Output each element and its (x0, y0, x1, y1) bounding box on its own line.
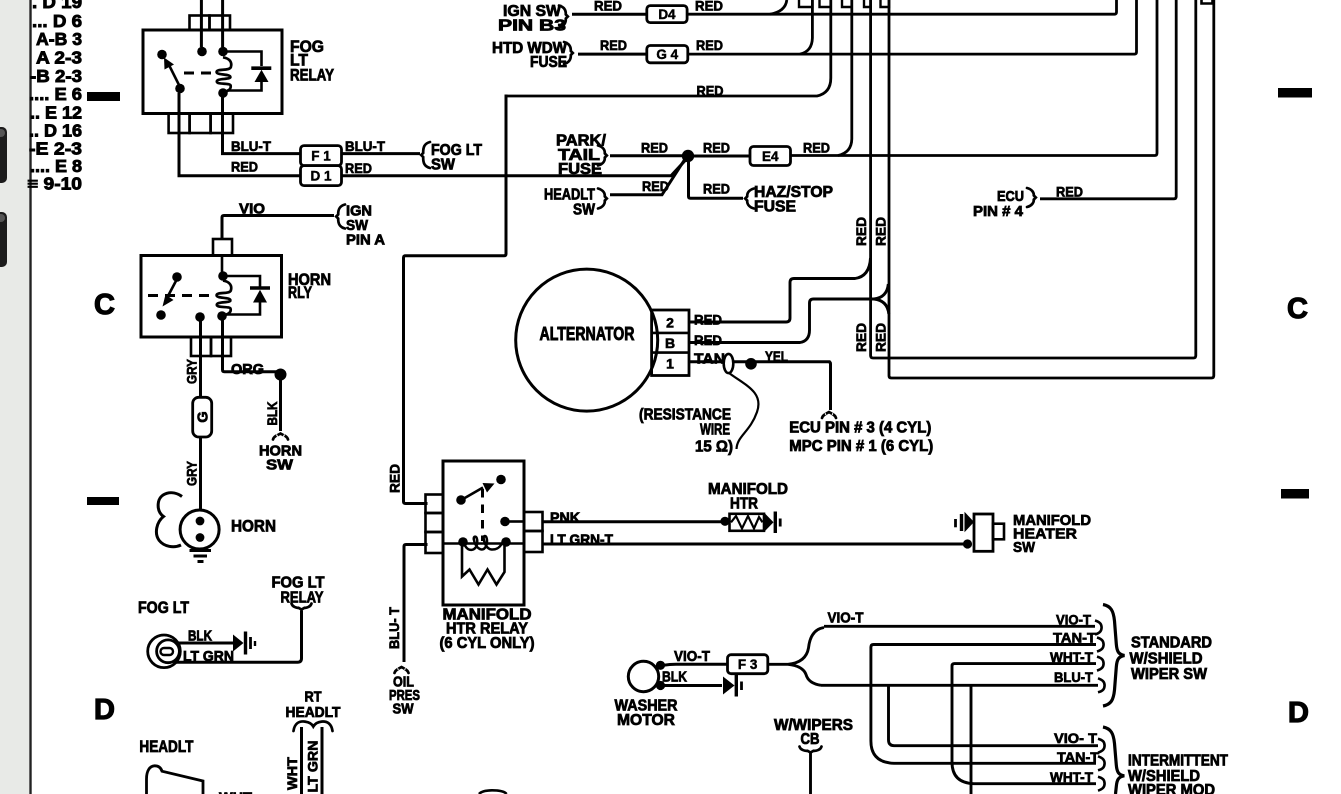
fog relay dashed actuator link (184, 72, 216, 75)
relay FOG LT RELAY box (143, 30, 282, 114)
grid index list (left margin) (27, 0, 82, 194)
sidebar scroll button 2 (0, 212, 7, 267)
label RED rotated (manifold feed) (387, 464, 403, 493)
horn rly bottom connector tabs (191, 337, 231, 356)
wire TAN/YEL alternator pin1 (689, 362, 831, 410)
label HEADLT (139, 738, 193, 756)
label RED (pin2) (694, 312, 722, 328)
wire branch up from D4 run (770, 0, 787, 14)
svg-text:RED: RED (694, 312, 722, 328)
connector end haz/stop fuse (745, 189, 754, 209)
label ECU PIN #4 (973, 188, 1024, 220)
label RED (headlt) (642, 178, 669, 194)
label FOG LT RELAY (callout) (272, 575, 325, 607)
junction dot yel (745, 358, 757, 370)
svg-text:YEL: YEL (765, 350, 788, 366)
svg-text:C: C (1287, 293, 1308, 325)
manifold htr ground (765, 512, 781, 534)
svg-text:TAN-T: TAN-T (1057, 749, 1099, 765)
svg-text:GRY: GRY (184, 358, 200, 384)
connector end oil pres sw (395, 667, 409, 673)
manifold relay right connector tabs (524, 512, 543, 552)
wire RED htd wdw to G4 (578, 53, 647, 56)
svg-text:BLK: BLK (264, 402, 280, 426)
label W/WIPERS CB (774, 717, 853, 748)
wire RED D4 to top right corner (687, 0, 1116, 14)
label BLU-T (right of F1) (345, 139, 386, 154)
svg-text:G 4: G 4 (656, 47, 678, 62)
svg-text:RED: RED (641, 140, 668, 156)
label TAN (694, 352, 725, 368)
label LT GRN-T (550, 532, 613, 549)
label ALTERNATOR (540, 324, 635, 344)
svg-text:D4: D4 (658, 7, 676, 22)
label FOG LT (lamp) (138, 599, 189, 617)
label HORN RLY (288, 271, 331, 302)
fog lt relay top connector tabs (190, 16, 231, 31)
svg-text:WHT: WHT (219, 790, 252, 794)
wire LT GRN fog lamp to relay (176, 611, 302, 663)
label WHT cut at bottom edge (219, 790, 252, 794)
top edge connector stub right pair (1202, 0, 1213, 4)
label RED (ign-d4) (594, 0, 622, 14)
wire TAN-T row (bracket shape) (871, 645, 1096, 764)
wire RED E4 to top right corner (791, 0, 1158, 156)
label GRY rotated (lower) (184, 460, 200, 486)
svg-text:WIPER SW: WIPER SW (1131, 666, 1207, 683)
svg-text:BLU-T: BLU-T (345, 139, 386, 154)
manifold relay resistor loop (462, 546, 505, 585)
svg-text:VIO-T: VIO-T (828, 611, 864, 627)
label RED (pinB) (694, 332, 722, 348)
svg-text:TAN-T: TAN-T (1053, 630, 1096, 646)
svg-text:RED: RED (803, 140, 830, 156)
svg-text:ALTERNATOR: ALTERNATOR (540, 324, 635, 344)
label HORN (231, 518, 276, 536)
connector D1 (301, 166, 342, 186)
svg-text:SW: SW (431, 157, 455, 174)
svg-text:RED: RED (697, 83, 724, 99)
svg-text:W/SHIELD: W/SHIELD (1130, 651, 1203, 668)
svg-text:RED: RED (231, 159, 258, 175)
manifold relay coil wire (443, 542, 524, 545)
label BLK (fog) (188, 628, 212, 645)
label IGN SW PIN A (346, 203, 385, 249)
label RED (park-junction) (641, 140, 668, 156)
label LT GRN rotated (305, 741, 321, 793)
wire RED ecu pin4 to top right (1040, 0, 1176, 199)
wire fog relay feed right (from top edge) (221, 0, 224, 47)
label INTERMITTENT W/SHIELD WIPER MOD (1128, 753, 1228, 794)
label VIO-T (row1 right) (1056, 612, 1091, 628)
horn relay diode (bar + triangle) (250, 288, 270, 303)
svg-text:G: G (196, 411, 212, 422)
svg-text:FUSE: FUSE (530, 54, 567, 71)
fog relay coil bottom dot (218, 88, 228, 98)
label MANIFOLD HEATER SW (1013, 513, 1091, 556)
svg-text:SW: SW (573, 202, 595, 219)
horn relay switch common dot (172, 272, 182, 282)
grid letter C right (1287, 293, 1308, 325)
connector end ecu pin3 (822, 412, 836, 418)
wire branch down to VIO-T row2 (889, 685, 1099, 745)
svg-text:WIRE: WIRE (700, 422, 730, 439)
wire LT GRN rt headlt (321, 727, 324, 794)
manifold heater sw wire dot (963, 539, 972, 548)
wire branch up from E4 run (838, 0, 852, 156)
svg-text:D 1: D 1 (310, 168, 332, 183)
manifold relay coil right dot (501, 537, 511, 547)
fog lt relay bottom connector tabs (169, 114, 233, 134)
svg-text:GRY: GRY (184, 460, 200, 486)
label (RESISTANCE WIRE 15 ohm) (639, 407, 733, 456)
resistance wire oval (724, 354, 734, 373)
wire RED G4 to top right corner (688, 0, 1137, 54)
svg-text:SW: SW (266, 457, 294, 474)
svg-text:E4: E4 (762, 149, 779, 164)
svg-text:BLU-T: BLU-T (1054, 669, 1093, 685)
label VIO (239, 201, 265, 218)
wire RED D1 to junction (342, 158, 688, 176)
grid letter D left (94, 694, 115, 726)
label ECU PIN #3 / MPC PIN #1 (789, 420, 933, 456)
junction dot ORG corner (275, 369, 287, 381)
label RED (right of D1) (345, 160, 372, 176)
horn relay switch lower dot (156, 310, 166, 320)
washer motor dot lower (656, 681, 665, 690)
svg-text:STANDARD: STANDARD (1131, 635, 1212, 652)
manifold relay switch arm with arrowhead (463, 483, 495, 499)
svg-text:RED: RED (703, 140, 730, 156)
wire BLU-T relay to oil pres sw (404, 545, 428, 663)
svg-text:INTERMITTENT: INTERMITTENT (1128, 753, 1228, 770)
alignment dash left upper (87, 92, 120, 101)
connector end horn sw (273, 434, 288, 440)
label ORG (231, 361, 264, 378)
brace intermittent wiper mod (1103, 727, 1124, 794)
svg-text:D: D (1288, 697, 1309, 729)
wire VIO-T row1 (824, 625, 1095, 628)
washer motor dot upper (656, 661, 665, 670)
svg-text:RED: RED (853, 323, 869, 352)
svg-text:VIO- T: VIO- T (1054, 730, 1097, 746)
manifold relay left connector tabs (426, 495, 444, 554)
wire WHT-T row (bracket shape) (952, 664, 1096, 784)
washer motor ground (723, 675, 742, 697)
label FOG LT SW (431, 142, 482, 174)
svg-text:... D 6: ... D 6 (32, 11, 82, 31)
svg-text:BLU- T: BLU- T (386, 607, 402, 649)
label WASHER MOTOR (615, 698, 678, 730)
alignment dash right lower (1281, 489, 1309, 499)
svg-text:VIO-T: VIO-T (674, 649, 710, 665)
wire RED alternator pinB (689, 284, 889, 343)
svg-text:PIN B3: PIN B3 (498, 18, 567, 35)
wire F3 fork (768, 628, 824, 686)
fog relay diode D (bar + triangle) (251, 68, 271, 82)
horn rly top connector tab (213, 239, 232, 256)
horn relay coil bottom dot (217, 311, 227, 321)
alignment dash right upper (1278, 88, 1312, 98)
fog relay switch moving dot (175, 84, 185, 94)
wire branch down x971 to bottom edge (970, 685, 973, 794)
svg-text:≡ 9-10: ≡ 9-10 (27, 174, 82, 194)
wire w/wipers cb down (809, 752, 812, 794)
horn relay bottom middle dot (195, 312, 205, 322)
svg-text:F 1: F 1 (311, 148, 331, 163)
ground below horn (190, 551, 212, 562)
brace standard wiper sw (1103, 605, 1125, 707)
label PARK/ TAIL FUSE (556, 133, 607, 179)
svg-text:LT GRN-T: LT GRN-T (550, 532, 613, 549)
svg-text:RED: RED (1056, 184, 1083, 200)
label RED rotated (feeder B upper) (873, 217, 889, 246)
wire BLU-T fog relay to F1 (223, 97, 301, 154)
svg-text:RELAY: RELAY (281, 590, 324, 607)
connector E4 (750, 147, 791, 166)
manifold relay dashed actuator link (481, 489, 484, 541)
label MANIFOLD HTR RELAY (6 CYL ONLY) (440, 607, 535, 653)
label VIO- T (row2) (1054, 730, 1097, 746)
fog relay coil feed dot (218, 47, 228, 57)
connector end fog lt sw (421, 142, 430, 168)
svg-text:RED: RED (695, 0, 723, 14)
wire BLK fog lamp to ground (178, 642, 233, 645)
wire BLK washer to ground (663, 684, 722, 687)
label LT GRN (fog) (183, 648, 234, 665)
svg-text:PNK: PNK (550, 510, 580, 527)
label IGN SW PIN B3 (498, 3, 567, 35)
svg-text:D: D (94, 694, 115, 726)
label WHT rotated (284, 757, 300, 790)
svg-text:BLK: BLK (662, 670, 687, 686)
label HEADLT SW (544, 187, 595, 219)
horn relay coil top dot (218, 271, 228, 281)
grid letter C left (94, 289, 115, 321)
connector end htd wdw fuse (564, 42, 573, 64)
svg-text:15 Ω): 15 Ω) (695, 439, 733, 456)
label BLU- T rotated (386, 607, 402, 649)
svg-text:2: 2 (666, 315, 674, 331)
svg-text:RED: RED (387, 464, 403, 493)
label YEL (765, 350, 788, 366)
label FOG LT RELAY (290, 38, 334, 85)
wire RED vertical feeder B (889, 0, 1214, 378)
wire RED junction to E4 (692, 155, 750, 158)
label BLK rotated (264, 402, 280, 426)
wire fog relay feed left (from top edge) (200, 0, 203, 47)
horn body bean shape (156, 493, 182, 547)
wire RED headlt sw to junction (610, 158, 686, 195)
cut-off arc at bottom edge (479, 790, 507, 794)
label STANDARD W/SHIELD WIPER SW (1130, 635, 1213, 684)
label WHT-T (row1) (1050, 649, 1093, 665)
svg-text:RED: RED (873, 323, 889, 352)
svg-text:SW: SW (393, 701, 415, 718)
connector F1 (301, 146, 342, 166)
svg-text:RT: RT (305, 689, 322, 706)
wire PNK (543, 520, 726, 523)
manifold relay coil loops (465, 536, 502, 550)
svg-text:RELAY: RELAY (290, 67, 334, 85)
label RED (d4 right) (695, 0, 723, 14)
resistance wire callout curve (729, 373, 758, 449)
connector end w/wipers cb (800, 747, 822, 753)
row TAN-T end arc (1097, 638, 1104, 652)
relay HORN RLY box (141, 256, 282, 338)
fuse G (193, 397, 212, 437)
fog relay diode branch wire (227, 52, 262, 91)
connector end ign sw pin b3 (559, 6, 568, 28)
svg-text:RED: RED (703, 181, 730, 197)
resistor MANIFOLD HTR box (730, 514, 765, 531)
label RED (e4 right) (803, 140, 830, 156)
svg-text:A 2-3: A 2-3 (36, 48, 82, 68)
label WHT-T (row2) (1050, 769, 1093, 785)
label RED (junction-e4) (703, 140, 730, 156)
wire RED vertical feeder A (871, 0, 1196, 358)
connector end fog lt relay (292, 604, 312, 610)
svg-text:RED: RED (345, 160, 372, 176)
headlamp body shape (147, 766, 204, 794)
fog lamp ground (233, 632, 255, 655)
wire RED long feeder y96 (506, 0, 831, 96)
horn relay coil (217, 281, 232, 316)
label HORN SW (259, 443, 302, 474)
fog lamp outer circle (148, 635, 181, 668)
row BLU-T end arc (1098, 678, 1105, 692)
svg-text:FOG LT: FOG LT (138, 599, 189, 617)
connector end park tail fuse (598, 146, 607, 166)
svg-text:SW: SW (1013, 540, 1035, 556)
horn relay switch arm with arrowhead (163, 279, 178, 307)
svg-text:VIO-T: VIO-T (1056, 612, 1091, 628)
wire BLU-T row1 (from F3 fork) (821, 684, 1098, 687)
sidebar scroll button 1 (0, 127, 7, 183)
label BLU-T (row1) (1054, 669, 1093, 685)
label MANIFOLD HTR (708, 481, 788, 513)
row2 WHT-T end arc (1098, 777, 1105, 791)
horn relay wire into tab (221, 256, 224, 273)
svg-text:LT GRN: LT GRN (305, 741, 321, 793)
svg-text:C: C (94, 289, 115, 321)
row WHT-T end arc (1097, 657, 1104, 671)
connector end ecu pin4 (1027, 188, 1036, 207)
manifold relay switch upper dot (496, 475, 506, 485)
switch MANIFOLD HEATER SW box (974, 514, 1004, 551)
svg-text:TAN: TAN (694, 352, 725, 368)
wire VIO-T washer to F3 (663, 664, 728, 665)
svg-text:WHT-T: WHT-T (1050, 769, 1093, 785)
fog relay switch arm with arrowhead (164, 58, 180, 88)
fog relay switch common dot (157, 50, 167, 60)
horn terminal dot upper (196, 517, 205, 526)
manifold relay contact dot PNK (500, 517, 510, 527)
label BLU-T (left of F1) (231, 139, 272, 154)
svg-text:WIPER MOD: WIPER MOD (1128, 782, 1215, 794)
svg-text:A-B 3: A-B 3 (36, 29, 82, 49)
svg-text:PIN # 4: PIN # 4 (973, 203, 1024, 220)
connector G4 (647, 46, 688, 63)
label RED (left of D1) (231, 159, 258, 175)
wire LT GRN-T (543, 543, 965, 546)
washer motor circle (628, 661, 658, 691)
svg-text:FUSE: FUSE (558, 161, 602, 178)
wire WHT rt headlt (300, 727, 303, 794)
svg-text:.. E 12: .. E 12 (30, 103, 82, 123)
horn relay dashed actuator link (148, 294, 214, 297)
horn relay diode branch wire (226, 276, 260, 315)
label PNK (550, 510, 580, 527)
wire RED ign sw to D4 (572, 13, 647, 16)
label GRY rotated (upper) (184, 358, 200, 384)
fog relay coil (217, 57, 232, 92)
label RED (htd-g4) (600, 37, 627, 53)
horn terminal dot lower (196, 533, 205, 542)
top edge connector stub row (799, 0, 889, 7)
svg-text:PIN A: PIN A (346, 232, 385, 249)
label RED rotated (feeder A upper) (853, 217, 869, 246)
svg-text:RED: RED (853, 217, 869, 246)
svg-text:MPC PIN # 1 (6 CYL): MPC PIN # 1 (6 CYL) (789, 438, 933, 455)
alternator pin boxes (652, 310, 689, 376)
relay MANIFOLD HTR RELAY box (443, 461, 524, 605)
label HAZ/STOP FUSE (754, 184, 833, 216)
svg-text:RED: RED (694, 332, 722, 348)
svg-text:CB: CB (801, 731, 820, 748)
label VIO-T (washer) (674, 649, 710, 665)
label OIL PRES SW (389, 674, 420, 718)
svg-text:RED: RED (873, 217, 889, 246)
svg-text:ECU PIN # 3 (4 CYL): ECU PIN # 3 (4 CYL) (789, 420, 931, 437)
wire branch up from G4 run (800, 0, 812, 54)
svg-text:HEADLT: HEADLT (139, 738, 193, 756)
svg-text:BLK: BLK (188, 628, 212, 645)
svg-text:FUSE: FUSE (754, 199, 796, 216)
svg-text:HORN: HORN (231, 518, 276, 536)
manifold heater sw ground (956, 512, 975, 532)
label RT HEADLT (286, 689, 341, 722)
horn circle (180, 510, 219, 549)
connector D4 (647, 6, 687, 23)
manifold relay switch common dot (456, 495, 466, 505)
wire BLK to horn sw (279, 375, 282, 432)
page border line (29, 0, 31, 794)
svg-text:RED: RED (594, 0, 622, 14)
fog lamp inner circle (157, 640, 180, 663)
wire BLU-T F1 to fog lt sw (342, 152, 420, 155)
fog relay coil top dot (197, 47, 207, 57)
svg-text:RLY: RLY (288, 284, 312, 302)
row2 VIO-T end arc (1098, 739, 1105, 753)
junction node dot (682, 150, 694, 162)
svg-text:F 3: F 3 (738, 657, 758, 672)
svg-text:VIO: VIO (239, 201, 265, 218)
left UI sidebar strip (0, 0, 29, 794)
label BLK (washer) (662, 670, 687, 686)
label RED rotated (feeder B) (873, 323, 889, 352)
wire RED vertical x506 to manifold relay (404, 95, 507, 504)
alignment dash left lower (87, 497, 119, 505)
label RED (y96) (697, 83, 724, 99)
svg-text:RED: RED (696, 37, 723, 53)
svg-text:RED: RED (642, 178, 669, 194)
wire RED fog relay to D1 (179, 93, 301, 176)
svg-text:RED: RED (600, 37, 627, 53)
label VIO-T (row1 left) (828, 611, 864, 627)
svg-text:HEADLT: HEADLT (286, 704, 341, 721)
svg-text:.. D 16: .. D 16 (29, 121, 82, 141)
